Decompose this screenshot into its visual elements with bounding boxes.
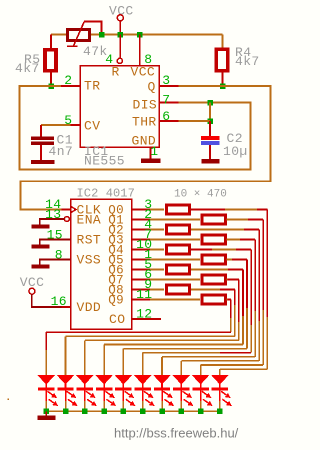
svg-text:3: 3 bbox=[162, 73, 170, 88]
inversion bubble pin 4 bbox=[117, 58, 122, 63]
wire TR/THR/DIS net loop bbox=[20, 86, 251, 170]
pin stub Q (pin 3) bbox=[159, 85, 179, 87]
svg-text:ENA: ENA bbox=[77, 213, 102, 228]
wire Q0 resistor to LED10 bbox=[191, 209, 225, 211]
svg-text:DIS: DIS bbox=[133, 98, 158, 113]
svg-text:15: 15 bbox=[47, 228, 63, 243]
svg-text:12: 12 bbox=[136, 307, 152, 322]
resistor 470 (from Q0) bbox=[167, 205, 190, 214]
RST pin 15 to ground bbox=[40, 240, 71, 245]
potentiometer wiper T-bar bbox=[67, 45, 78, 47]
svg-text:VSS: VSS bbox=[77, 253, 102, 268]
LED D7 bbox=[153, 375, 171, 385]
LED D8 bbox=[173, 375, 191, 385]
wire R5 to TR node bbox=[50, 72, 52, 87]
LED D4 bbox=[95, 375, 113, 385]
wire Q output to CLK net bbox=[21, 86, 271, 210]
LED D1 bbox=[37, 375, 55, 385]
wire Q4 resistor to LED6 bbox=[191, 249, 212, 251]
wire Q3 resistor to LED7 bbox=[227, 239, 241, 241]
svg-text:CO: CO bbox=[109, 312, 125, 327]
svg-text:16: 16 bbox=[51, 294, 67, 309]
stray dot bbox=[7, 398, 9, 400]
wire rail to R bubble (pin 4) bbox=[119, 35, 121, 59]
pin stub GND (pin 1) bbox=[150, 147, 152, 160]
pin stub Q8 (pin 9) bbox=[132, 289, 151, 291]
svg-text:http://bss.freeweb.hu/: http://bss.freeweb.hu/ bbox=[114, 426, 239, 441]
junction LED D4 cathode bbox=[101, 409, 107, 415]
wire bus to ground bbox=[45, 411, 47, 415]
LED D2 bbox=[57, 375, 75, 385]
ENA pin 13 with bubble to ground bbox=[64, 217, 69, 222]
svg-text:10µ: 10µ bbox=[223, 144, 248, 159]
wire rail to R5 bbox=[50, 35, 52, 49]
svg-text:4k7: 4k7 bbox=[235, 54, 260, 69]
potentiometer wiper arrow bbox=[73, 22, 84, 46]
wire Q3 to resistor bbox=[150, 239, 200, 241]
junction LED D2 cathode bbox=[63, 409, 69, 415]
wire CV net to C1 bbox=[40, 125, 42, 137]
svg-text:THR: THR bbox=[132, 115, 157, 130]
resistor 470 (from Q2) bbox=[167, 225, 190, 234]
svg-text:IC2 4017: IC2 4017 bbox=[77, 187, 135, 201]
wire wiper to rail bbox=[84, 22, 101, 35]
wire Q5 to resistor bbox=[150, 259, 200, 261]
svg-text:R: R bbox=[112, 65, 120, 80]
potentiometer 47k body bbox=[68, 30, 90, 41]
wire THR to C2 bbox=[209, 121, 211, 136]
capacitor C1 plate 1 bbox=[31, 137, 54, 141]
pin stub Q0 (pin 3) bbox=[132, 209, 151, 211]
resistor 470 (from Q3) bbox=[202, 235, 226, 244]
svg-text:VCC: VCC bbox=[131, 65, 156, 80]
resistor 470 (from Q9) bbox=[202, 295, 226, 304]
capacitor C1 plate 2 bbox=[31, 142, 54, 146]
svg-text:TR: TR bbox=[84, 79, 100, 94]
wire VCC to VDD bbox=[32, 294, 62, 307]
svg-text:CV: CV bbox=[84, 119, 100, 134]
svg-text:7: 7 bbox=[162, 93, 170, 108]
pin stub Q6 (pin 5) bbox=[132, 269, 151, 271]
resistor 470 (from Q1) bbox=[202, 215, 226, 224]
wire Q2 to resistor bbox=[150, 229, 164, 231]
pin stub CO (pin 12) bbox=[132, 318, 162, 320]
clock symbol CLK bbox=[71, 206, 77, 213]
ground bar (RST) bbox=[32, 245, 50, 249]
VCC symbol circle (4017) bbox=[29, 288, 35, 294]
wire rail to R4 bbox=[222, 35, 224, 49]
pin stub Q9 (pin 11) bbox=[132, 299, 151, 301]
wire Q9 to resistor bbox=[150, 299, 200, 301]
svg-text:5: 5 bbox=[64, 113, 72, 128]
svg-text:RST: RST bbox=[77, 233, 102, 248]
wire Q6 resistor to LED4 bbox=[191, 269, 228, 271]
resistor 470 (from Q7) bbox=[202, 275, 226, 284]
wire Q0 to resistor bbox=[150, 209, 164, 211]
junction LED D5 cathode bbox=[121, 409, 127, 415]
resistor R5 bbox=[45, 50, 56, 71]
wire DIS to THR riser bbox=[209, 103, 211, 122]
resistor 470 (from Q4) bbox=[167, 245, 190, 254]
pin stub Q2 (pin 4) bbox=[132, 229, 151, 231]
wire Q1 to resistor bbox=[150, 219, 200, 221]
junction LED D3 cathode bbox=[82, 409, 88, 415]
wire THR net bbox=[179, 120, 211, 122]
ground bar (LED bus) bbox=[38, 415, 56, 420]
pin stub Q1 (pin 2) bbox=[132, 219, 151, 221]
wire C1 to ground bbox=[40, 145, 42, 160]
wire VCC rail bbox=[51, 34, 223, 36]
wire R4 to Q net bbox=[222, 72, 224, 87]
pin stub Q3 (pin 7) bbox=[132, 239, 151, 241]
pin stub Q7 (pin 6) bbox=[132, 279, 151, 281]
junction LED D1 cathode bbox=[43, 409, 49, 415]
LED D6 bbox=[134, 375, 152, 385]
svg-text:6: 6 bbox=[162, 109, 170, 124]
junction LED D10 cathode bbox=[217, 409, 223, 415]
svg-text:10 × 470: 10 × 470 bbox=[174, 189, 227, 201]
junction TR node bbox=[48, 83, 54, 89]
wire C2 to ground bbox=[209, 145, 211, 160]
resistor R4 bbox=[216, 49, 227, 70]
LED D9 bbox=[192, 375, 210, 385]
junction LED D8 cathode bbox=[179, 409, 185, 415]
op-amp U1: IC1 NE555 body bbox=[80, 66, 159, 148]
svg-text:VCC: VCC bbox=[109, 4, 134, 19]
svg-text:Q: Q bbox=[148, 80, 156, 95]
pin stub CLK (pin 14) bbox=[62, 209, 71, 211]
svg-text:2: 2 bbox=[64, 73, 72, 88]
junction LED D7 cathode bbox=[159, 409, 165, 415]
svg-text:NE555: NE555 bbox=[84, 154, 125, 169]
VCC symbol circle bbox=[117, 15, 123, 21]
resistor 470 (from Q6) bbox=[167, 265, 190, 274]
svg-text:4k7: 4k7 bbox=[15, 61, 40, 76]
wire VCC symbol to rail bbox=[119, 21, 121, 35]
wire Q7 resistor to LED3 bbox=[227, 279, 228, 281]
junction VCC rail bbox=[118, 32, 124, 38]
wire Q8 to resistor bbox=[150, 289, 164, 291]
resistor 470 (from Q8) bbox=[167, 285, 190, 294]
junction pin8 rail bbox=[137, 32, 143, 38]
wire CV to C1 bbox=[41, 124, 71, 126]
svg-text:13: 13 bbox=[45, 207, 61, 222]
wire Q7 to resistor bbox=[150, 279, 200, 281]
wire Q5 resistor to LED5 bbox=[227, 259, 233, 261]
junction DIS/THR riser bbox=[207, 100, 213, 106]
svg-text:4n7: 4n7 bbox=[49, 144, 74, 159]
junction LED D6 cathode bbox=[140, 409, 146, 415]
pin stub THR (pin 6) bbox=[159, 120, 179, 122]
LED D10 bbox=[211, 375, 229, 385]
pin stub Q5 (pin 1) bbox=[132, 259, 151, 261]
svg-text:47k: 47k bbox=[83, 44, 108, 59]
wire TR net bbox=[51, 85, 61, 87]
junction LED D9 cathode bbox=[198, 409, 204, 415]
pin stub TR (pin 2) bbox=[61, 85, 80, 87]
ground bar (C2) bbox=[202, 159, 220, 164]
pin stub DIS (pin 7) bbox=[159, 102, 179, 104]
capacitor C2 plus plate bbox=[201, 136, 220, 140]
wire LED cathode bus bbox=[46, 410, 220, 412]
wire Q9 resistor to LED1 bbox=[227, 299, 228, 301]
wire Q2 resistor to LED8 bbox=[191, 229, 244, 231]
wire Q8 resistor to LED2 bbox=[191, 289, 220, 291]
junction THR/C2 bbox=[207, 118, 213, 124]
ground bar (VSS) bbox=[32, 265, 50, 269]
wire Q4 to resistor bbox=[150, 249, 164, 251]
ground bar (ENA) bbox=[32, 225, 50, 229]
wire Q1 resistor to LED9 bbox=[227, 219, 249, 221]
pin stub Q4 (pin 10) bbox=[132, 249, 151, 251]
wire Q6 to resistor bbox=[150, 269, 164, 271]
junction R4/Q net bbox=[220, 83, 226, 89]
svg-text:1: 1 bbox=[150, 144, 158, 159]
op-amp U2: IC2 4017 body bbox=[71, 199, 132, 329]
LED D5 bbox=[115, 375, 133, 385]
resistor 470 (from Q5) bbox=[202, 255, 226, 264]
pin stub VDD (pin 16) bbox=[62, 306, 71, 308]
svg-text:8: 8 bbox=[55, 248, 63, 263]
VSS pin 8 to ground bbox=[40, 260, 71, 265]
junction wiper/rail bbox=[99, 32, 105, 38]
LED D3 bbox=[76, 375, 94, 385]
wire rail to pin 8 bbox=[139, 35, 141, 66]
capacitor C2 minus plate bbox=[201, 141, 220, 145]
ground bar (C1) bbox=[31, 160, 55, 164]
svg-text:VDD: VDD bbox=[77, 300, 102, 315]
svg-text:Q9: Q9 bbox=[108, 293, 124, 307]
pin stub CV (pin 5) bbox=[71, 124, 80, 126]
ground bar (555 pin 1) bbox=[141, 159, 161, 164]
